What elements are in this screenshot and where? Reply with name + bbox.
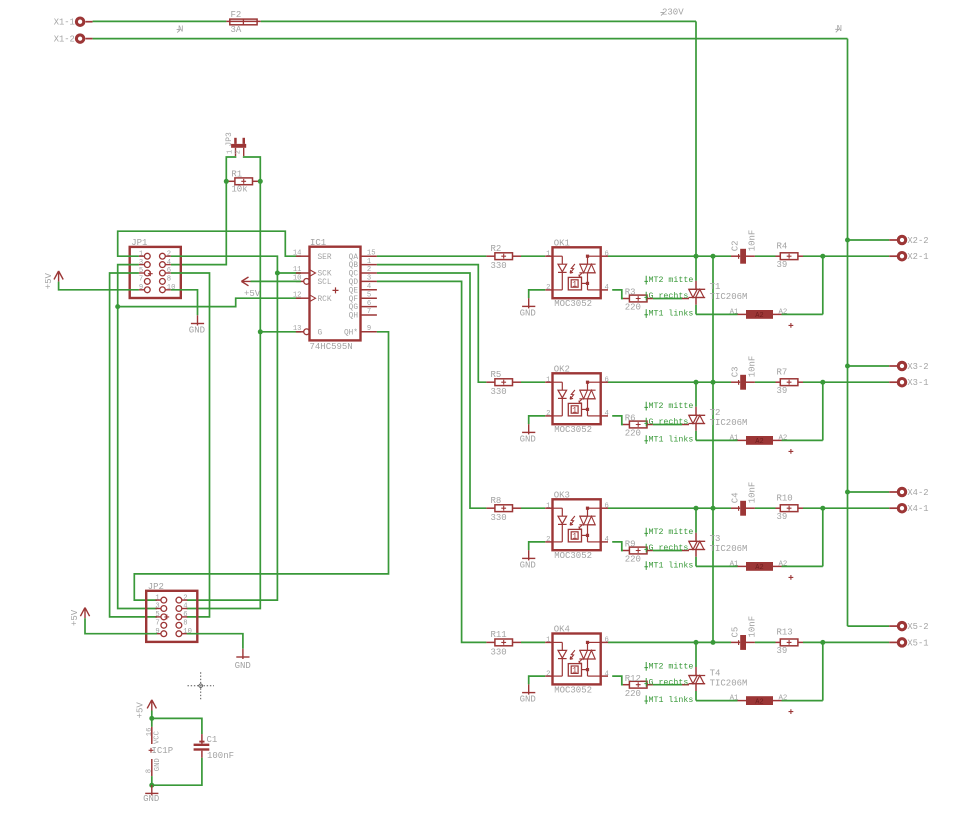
pin header JP2 xyxy=(146,591,197,642)
svg-text:GND: GND xyxy=(520,695,536,705)
wire +5V to VCC node xyxy=(151,711,153,719)
svg-text:10nF: 10nF xyxy=(747,230,757,252)
wire GND node to C1 bottom xyxy=(152,758,202,785)
resistor R8 xyxy=(486,505,521,512)
optocoupler OK4 MOC3052 xyxy=(545,634,608,685)
label C1 xyxy=(207,735,218,745)
junction N rail row3 xyxy=(845,490,850,495)
svg-text:220: 220 xyxy=(625,555,641,565)
net label MT1 links xyxy=(644,435,693,445)
svg-text:GND: GND xyxy=(143,794,159,804)
resistor R12 xyxy=(623,681,653,688)
wire inductor to output node row3 xyxy=(782,508,823,566)
triac T1 TIC206M xyxy=(682,289,705,305)
svg-text:1: 1 xyxy=(367,258,371,266)
wire fuse to 230V vertical xyxy=(261,20,696,22)
svg-text:X5-1: X5-1 xyxy=(907,638,928,648)
pin numbers OK1 xyxy=(546,250,609,292)
svg-text:QA: QA xyxy=(349,254,359,262)
label R12 xyxy=(625,674,641,684)
svg-text:T4: T4 xyxy=(710,668,721,678)
svg-text:14: 14 xyxy=(293,249,302,257)
svg-text:JP2: JP2 xyxy=(148,582,164,592)
svg-text:R12: R12 xyxy=(625,674,641,684)
junction output node row1 xyxy=(820,254,825,259)
pin 2 label JP3 xyxy=(234,150,242,154)
label C3 xyxy=(730,366,740,377)
wire OK1 pin2 to GND xyxy=(529,290,546,298)
svg-text:SCK: SCK xyxy=(318,271,332,279)
svg-text:1: 1 xyxy=(227,150,235,154)
label JP3 xyxy=(225,132,234,147)
svg-text:GND: GND xyxy=(189,325,205,335)
svg-text:A2: A2 xyxy=(755,564,763,572)
wire 230V to T4 MT2 xyxy=(695,642,697,675)
svg-text:6: 6 xyxy=(367,300,371,308)
wire QH* to JP2-1 xyxy=(134,332,388,600)
svg-text:1: 1 xyxy=(155,594,159,602)
junction SCK xyxy=(275,271,280,276)
svg-text:8: 8 xyxy=(145,769,153,773)
net label MT2 mitte xyxy=(644,661,693,671)
svg-text:13: 13 xyxy=(293,325,302,333)
svg-text:X2-2: X2-2 xyxy=(907,236,928,246)
pin numbers OK2 xyxy=(546,376,609,418)
svg-text:10: 10 xyxy=(183,628,192,636)
wire R11 to OK4 pin1 xyxy=(521,641,545,643)
svg-text:4: 4 xyxy=(183,603,187,611)
svg-text:2: 2 xyxy=(183,594,187,602)
svg-text:4: 4 xyxy=(605,284,609,292)
svg-text:C5: C5 xyxy=(730,627,740,638)
label R7 xyxy=(777,367,788,377)
label R2 xyxy=(491,244,502,254)
svg-text:39: 39 xyxy=(777,260,788,270)
svg-text:T2: T2 xyxy=(710,408,721,418)
pin label A1 (row4) xyxy=(730,695,739,703)
svg-text:QE: QE xyxy=(349,287,359,295)
supply +5V (left) xyxy=(44,271,63,289)
svg-text:10nF: 10nF xyxy=(747,616,757,638)
wire OK4 pin6 to 230V rail xyxy=(608,641,731,643)
label JP2 xyxy=(148,582,164,592)
svg-text:GND: GND xyxy=(520,560,536,570)
label C2 xyxy=(730,240,740,251)
svg-text:IC1P: IC1P xyxy=(152,746,174,756)
svg-text:G rechts: G rechts xyxy=(649,417,689,427)
junction 230V-triac T2 xyxy=(694,380,699,385)
svg-text:1: 1 xyxy=(572,532,577,541)
svg-text:2: 2 xyxy=(546,410,550,418)
optocoupler OK3 MOC3052 xyxy=(545,499,608,550)
svg-text:MOC3052: MOC3052 xyxy=(554,425,592,435)
junction N rail row1 xyxy=(845,238,850,243)
wire OK2 pin4 to R6 xyxy=(612,416,623,425)
svg-text:330: 330 xyxy=(491,387,507,397)
wire 230V to T1 MT2 xyxy=(695,256,697,289)
capacitor C2 xyxy=(731,249,755,264)
svg-text:G rechts: G rechts xyxy=(649,677,689,687)
svg-text:1: 1 xyxy=(546,637,550,645)
supply +5V (IC1P) xyxy=(136,700,157,719)
pin label A2 (row2) xyxy=(779,434,788,442)
svg-text:X2-1: X2-1 xyxy=(907,252,928,262)
wire N rail to pad X3-2 xyxy=(848,365,890,367)
svg-text:X3-2: X3-2 xyxy=(907,362,928,372)
svg-text:10: 10 xyxy=(167,284,176,292)
svg-text:9: 9 xyxy=(367,325,371,333)
svg-text:T1: T1 xyxy=(710,282,721,292)
value 330 (R8) xyxy=(491,513,507,523)
svg-text:5: 5 xyxy=(139,267,143,275)
pin label A2 (row1) xyxy=(779,308,788,316)
svg-text:X4-2: X4-2 xyxy=(907,488,928,498)
wire output node to pad X3-1 xyxy=(823,381,890,383)
svg-text:6: 6 xyxy=(183,611,187,619)
connector pad X3-2 xyxy=(889,362,928,372)
svg-text:GND: GND xyxy=(520,308,536,318)
svg-text:SCL: SCL xyxy=(318,279,332,287)
svg-text:JP1: JP1 xyxy=(131,238,147,248)
svg-text:RCK: RCK xyxy=(318,296,332,304)
wire 230V vertical to row1 xyxy=(695,21,697,256)
connector pad X5-2 xyxy=(889,622,928,632)
value 10nF (C4) xyxy=(747,482,757,504)
wire R10 to output node xyxy=(803,507,823,509)
resistor R13 xyxy=(776,639,804,646)
net label MT1 links xyxy=(644,309,693,319)
svg-text:X4-1: X4-1 xyxy=(907,504,928,514)
svg-text:9: 9 xyxy=(139,284,143,292)
value MOC3052 (OK2) xyxy=(554,425,592,435)
value TIC206M (T3) xyxy=(710,544,748,554)
wire inductor to output node row1 xyxy=(782,256,823,314)
wire C4 to R10 xyxy=(755,507,776,509)
svg-text:220: 220 xyxy=(625,303,641,313)
wire OK3 pin2 to GND xyxy=(529,542,546,550)
net label MT2 mitte xyxy=(644,527,693,537)
svg-text:MOC3052: MOC3052 xyxy=(554,299,592,309)
svg-text:MT1 links: MT1 links xyxy=(649,561,694,571)
connector pad X4-1 xyxy=(889,504,928,514)
svg-text:SER: SER xyxy=(318,254,332,262)
svg-text:74HC595N: 74HC595N xyxy=(310,342,353,352)
svg-text:A1: A1 xyxy=(730,695,739,703)
svg-text:G rechts: G rechts xyxy=(649,543,689,553)
wire C3 to R7 xyxy=(755,381,776,383)
svg-text:MT2 mitte: MT2 mitte xyxy=(649,401,694,411)
svg-text:+5V: +5V xyxy=(136,702,146,719)
svg-text:39: 39 xyxy=(777,646,788,656)
net label MT2 mitte xyxy=(644,275,693,285)
svg-text:X1-2: X1-2 xyxy=(54,34,75,44)
svg-text:A1: A1 xyxy=(730,434,739,442)
svg-text:10k: 10k xyxy=(231,185,247,195)
optocoupler OK1 MOC3052 xyxy=(545,247,608,298)
wire 230V to T2 MT2 xyxy=(695,382,697,415)
label R4 xyxy=(777,241,788,251)
value MOC3052 (OK4) xyxy=(554,685,592,695)
connector pad X5-1 xyxy=(889,638,928,648)
wire output node to pad X4-1 xyxy=(823,507,890,509)
wire 230V to T3 MT2 xyxy=(695,508,697,541)
svg-text:A1: A1 xyxy=(730,560,739,568)
wire R6 to T2 gate xyxy=(653,424,682,426)
junction 230V rail row1 xyxy=(711,254,716,259)
svg-text:MOC3052: MOC3052 xyxy=(554,685,592,695)
triac T4 TIC206M xyxy=(682,676,705,692)
svg-text:330: 330 xyxy=(491,261,507,271)
svg-text:39: 39 xyxy=(777,386,788,396)
ground GND (below JP2) xyxy=(235,649,251,671)
pin label A1 (row2) xyxy=(730,434,739,442)
capacitor C1 xyxy=(194,734,210,758)
label OK3 xyxy=(554,491,570,501)
wire JP1-5 to JP2-5 xyxy=(110,273,157,617)
label T1 xyxy=(710,282,721,292)
wire GND pin to GND node xyxy=(151,776,153,785)
svg-text:+5V: +5V xyxy=(44,272,54,289)
resistor R2 xyxy=(486,253,521,260)
svg-text:4: 4 xyxy=(367,283,371,291)
wire JP2-10 to GND xyxy=(187,634,243,649)
resistor R11 xyxy=(486,639,521,646)
wire SER net (JP1-1 to IC1 SER) xyxy=(118,231,301,256)
svg-text:5: 5 xyxy=(155,611,159,619)
svg-text:7: 7 xyxy=(155,620,159,628)
svg-text:X1-1: X1-1 xyxy=(54,18,75,28)
svg-text:R3: R3 xyxy=(625,288,636,298)
supply +5V (to SCL) xyxy=(241,277,260,299)
svg-text:R4: R4 xyxy=(777,241,788,251)
value 3A xyxy=(231,25,242,35)
net label G rechts xyxy=(644,543,688,553)
wire inductor to output node row2 xyxy=(782,382,823,440)
label R11 xyxy=(491,630,507,640)
value 330 (R11) xyxy=(491,647,507,657)
label R9 xyxy=(625,540,636,550)
net label MT2 mitte xyxy=(644,401,693,411)
label C5 xyxy=(730,627,740,638)
svg-text:2: 2 xyxy=(546,536,550,544)
svg-text:R10: R10 xyxy=(777,493,793,503)
net label MT1 links xyxy=(644,695,693,705)
svg-text:R6: R6 xyxy=(625,414,636,424)
wire JP1-10 to GND xyxy=(171,290,198,316)
junction N rail row2 xyxy=(845,364,850,369)
svg-text:MT2 mitte: MT2 mitte xyxy=(649,661,694,671)
wire R7 to output node xyxy=(803,381,823,383)
svg-text:QB: QB xyxy=(349,262,359,270)
junction output node row4 xyxy=(820,640,825,645)
IC U1 power part IC1P xyxy=(145,727,173,776)
resistor R1 xyxy=(226,178,260,185)
wire OK4 pin2 to GND xyxy=(529,676,546,684)
svg-text:R7: R7 xyxy=(777,367,788,377)
junction VCC node xyxy=(149,716,154,721)
JP2 pin numbers xyxy=(155,594,192,636)
svg-text:8: 8 xyxy=(183,620,187,628)
svg-text:6: 6 xyxy=(605,250,609,258)
svg-text:+5V: +5V xyxy=(70,609,80,626)
inductor L2 (A1-A2 box) xyxy=(738,436,782,446)
svg-text:220: 220 xyxy=(625,689,641,699)
svg-text:QH*: QH* xyxy=(344,329,358,337)
svg-text:MOC3052: MOC3052 xyxy=(554,551,592,561)
wire QC to R8 xyxy=(377,273,487,508)
wire output node to pad X5-1 xyxy=(823,641,890,643)
label IC1 xyxy=(310,238,326,248)
svg-text:QC: QC xyxy=(349,271,359,279)
pin numbers OK3 xyxy=(546,502,609,544)
svg-text:MT1 links: MT1 links xyxy=(649,435,694,445)
inductor L3 (A1-A2 box) xyxy=(738,562,782,572)
svg-text:6: 6 xyxy=(167,267,171,275)
resistor R5 xyxy=(486,379,521,386)
wire N rail to pad X4-2 xyxy=(848,491,890,493)
svg-text:1: 1 xyxy=(572,406,577,415)
wire OK3 pin4 to R9 xyxy=(612,542,623,551)
net label MT1 links xyxy=(644,561,693,571)
svg-text:C3: C3 xyxy=(730,366,740,377)
wire C2 to R4 xyxy=(755,255,776,257)
label R6 xyxy=(625,414,636,424)
svg-text:2: 2 xyxy=(546,284,550,292)
capacitor C5 xyxy=(731,635,755,650)
pin numbers OK4 xyxy=(546,637,609,679)
wire 230V rail segment row3-row4 xyxy=(712,508,714,642)
wire R12 to T4 gate xyxy=(653,684,682,686)
svg-text:T3: T3 xyxy=(710,534,721,544)
label T3 xyxy=(710,534,721,544)
svg-text:TIC206M: TIC206M xyxy=(710,292,748,302)
svg-text:3: 3 xyxy=(139,259,143,267)
svg-text:4: 4 xyxy=(605,410,609,418)
capacitor C4 xyxy=(731,501,755,516)
wire RCK net (JP1-3 to IC1 RCK to JP2-3) xyxy=(118,265,301,609)
label R1 xyxy=(231,169,242,179)
connector pad X4-2 xyxy=(889,488,928,498)
svg-text:R13: R13 xyxy=(777,628,793,638)
value 330 (R5) xyxy=(491,387,507,397)
connector pad X2-2 xyxy=(889,236,928,246)
svg-text:6: 6 xyxy=(605,637,609,645)
wire N vertical rail xyxy=(847,39,849,627)
resistor R6 xyxy=(623,421,653,428)
junction output node row2 xyxy=(820,380,825,385)
value TIC206M (T2) xyxy=(710,418,748,428)
svg-text:R11: R11 xyxy=(491,630,507,640)
svg-text:10nF: 10nF xyxy=(747,482,757,504)
wire X1-1 to fuse F2 xyxy=(93,20,227,22)
svg-text:4: 4 xyxy=(605,670,609,678)
junction 230V-triac T4 xyxy=(694,640,699,645)
resistor R10 xyxy=(776,505,804,512)
svg-text:2: 2 xyxy=(234,150,242,154)
junction 230V rail row2 xyxy=(711,380,716,385)
svg-text:C1: C1 xyxy=(207,735,218,745)
svg-text:7: 7 xyxy=(139,276,143,284)
label R8 xyxy=(491,496,502,506)
wire R8 to OK3 pin1 xyxy=(521,507,545,509)
label T2 xyxy=(710,408,721,418)
svg-text:+5V: +5V xyxy=(244,289,261,299)
wire JP3-1 to R1 left / JP1-4 net xyxy=(171,156,236,264)
supply +5V (JP2) xyxy=(70,608,89,626)
wire QA to R2 xyxy=(377,255,487,257)
value 330 (R2) xyxy=(491,261,507,271)
junction R1 left xyxy=(224,179,229,184)
svg-text:IC1: IC1 xyxy=(310,238,326,248)
svg-text:A1: A1 xyxy=(730,308,739,316)
ground GND (IC1P) xyxy=(143,785,159,804)
IC U1 74HC595N xyxy=(293,247,377,341)
label R10 xyxy=(777,493,793,503)
svg-text:R9: R9 xyxy=(625,540,636,550)
ground GND (OK1) xyxy=(520,298,536,318)
pin label A2 (row4) xyxy=(779,695,788,703)
wire R13 to output node xyxy=(803,641,823,643)
junction 230V-triac T1 xyxy=(694,254,699,259)
svg-text:C2: C2 xyxy=(730,240,740,251)
net label 230V xyxy=(660,7,684,17)
inductor L1 (A1-A2 box) xyxy=(738,310,782,320)
svg-text:1: 1 xyxy=(546,502,550,510)
svg-text:GND: GND xyxy=(520,434,536,444)
junction 230V rail row4 xyxy=(711,640,716,645)
value TIC206M (T4) xyxy=(710,678,748,688)
resistor R3 xyxy=(623,295,653,302)
svg-text:R2: R2 xyxy=(491,244,502,254)
svg-text:TIC206M: TIC206M xyxy=(710,418,748,428)
svg-text:QG: QG xyxy=(349,304,359,312)
svg-text:A2: A2 xyxy=(755,698,763,706)
connector pad X1-1 xyxy=(54,18,93,28)
svg-text:A2: A2 xyxy=(755,438,763,446)
svg-text:OK2: OK2 xyxy=(554,365,570,375)
value 74HC595N xyxy=(310,342,353,352)
svg-text:A2: A2 xyxy=(755,312,763,320)
svg-text:39: 39 xyxy=(777,512,788,522)
wire JP3-2 to R1 right (G net upper) xyxy=(244,156,261,181)
value MOC3052 (OK3) xyxy=(554,551,592,561)
connector pad X2-1 xyxy=(889,252,928,262)
svg-text:11: 11 xyxy=(293,266,302,274)
resistor R4 xyxy=(776,253,804,260)
JP1 pin numbers xyxy=(139,250,176,292)
svg-text:1: 1 xyxy=(572,667,577,676)
svg-text:3: 3 xyxy=(155,603,159,611)
label R13 xyxy=(777,628,793,638)
svg-text:F2: F2 xyxy=(231,10,242,20)
svg-text:C4: C4 xyxy=(730,492,740,503)
svg-text:6: 6 xyxy=(605,502,609,510)
origin cross (L3) xyxy=(789,575,794,580)
svg-text:VCC: VCC xyxy=(154,730,162,744)
svg-text:R1: R1 xyxy=(231,169,242,179)
wire QB to R5 xyxy=(377,265,487,383)
connector pad X1-2 xyxy=(54,34,93,44)
svg-text:2: 2 xyxy=(367,266,371,274)
wire VCC node to C1 top xyxy=(152,718,202,734)
value 10nF (C3) xyxy=(747,356,757,378)
wire R9 to T3 gate xyxy=(653,550,682,552)
label C4 xyxy=(730,492,740,503)
origin cross (L2) xyxy=(789,449,794,454)
optocoupler OK2 MOC3052 xyxy=(545,373,608,424)
label OK1 xyxy=(554,239,570,249)
svg-text:MT2 mitte: MT2 mitte xyxy=(649,275,694,285)
